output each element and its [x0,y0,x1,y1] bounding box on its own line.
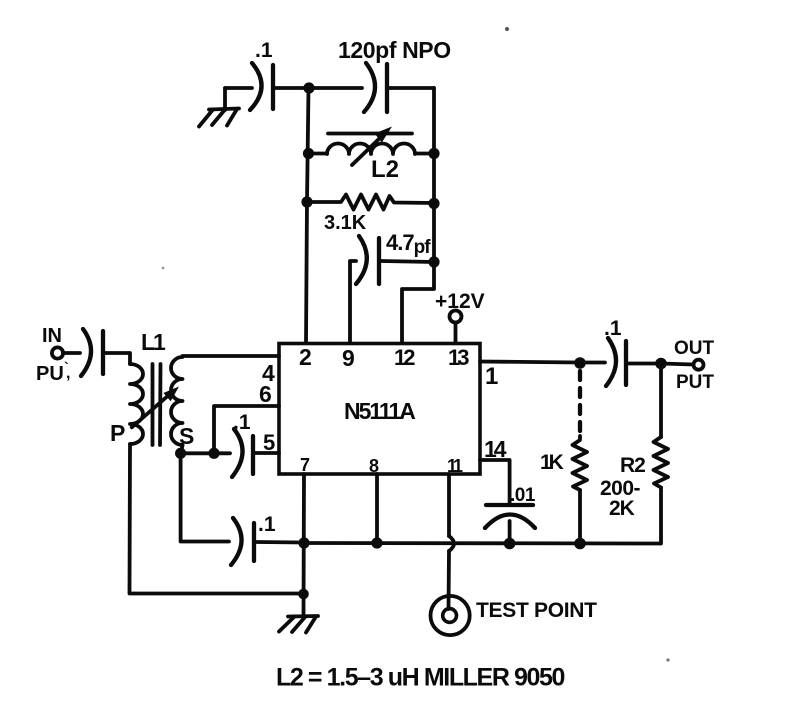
ground GND2 [279,616,318,633]
svg-text:7: 7 [300,455,310,475]
wire L2 right lead [415,152,434,156]
node O [504,538,516,550]
wire right tank rail [432,88,436,262]
wire pin14 [480,460,510,503]
wire C6 to pin7 rail [256,540,304,544]
svg-text:2: 2 [299,344,312,370]
svg-text:.01: .01 [510,485,536,506]
wire pin7 down to ground [302,474,306,616]
node N [574,538,586,550]
svg-text:2K: 2K [609,497,635,520]
svg-text:OUT: OUT [674,338,715,359]
IC U1 N5111A [259,344,507,477]
node C [428,148,439,159]
wire C8 to bus [508,521,512,544]
wire C5 to pin5 [255,451,279,455]
wire secondary bottom [181,445,183,453]
svg-text:.1: .1 [233,411,251,434]
wire pin1 [480,362,580,363]
svg-text:TEST POINT: TEST POINT [476,599,597,622]
svg-text:L1: L1 [141,329,166,355]
wire node G to C5 [181,451,230,455]
capacitor C2 120pf NPO [338,37,451,112]
ground GND1 [199,109,239,127]
wire ground lead top-left [223,88,227,110]
node J [371,537,382,548]
svg-text:L2: L2 [371,156,399,183]
svg-text:6: 6 [259,381,272,407]
svg-text:12: 12 [394,345,415,370]
svg-text:IN: IN [42,325,62,347]
svg-text:120pf NPO: 120pf NPO [338,37,451,63]
svg-text:,: , [66,365,70,382]
test point TP [431,596,598,635]
wire R2 to bus corner [660,488,661,544]
wire pin9 lead [350,261,356,343]
terminal OUT [674,338,715,393]
svg-text:.1: .1 [604,317,622,340]
wire primary bottom long link [130,444,304,594]
capacitor C7 .1 out [604,317,626,386]
node M [655,358,667,370]
wire node M down to R2 [659,364,663,438]
wire pin8 [375,474,379,543]
node B [303,148,314,159]
capacitor C1 .1 [250,39,273,110]
node E [428,198,439,209]
wire pin4 [183,354,280,358]
terminal IN [36,325,70,385]
node G [175,448,186,459]
wire pin11 lower [447,551,451,609]
svg-text:1K: 1K [540,451,564,474]
wire C4 to L1 primary [104,353,130,364]
inductor L2 [327,127,415,184]
wire node A to C2 [309,86,362,90]
capacitor C6 .1 bottom [231,513,276,565]
wire node M to OUT [661,364,693,365]
node I [298,537,309,548]
wire node L to C7 [580,361,605,365]
svg-text:3.1K: 3.1K [324,212,367,234]
wire L2 left lead [309,152,328,156]
node L [574,357,586,369]
node A [303,82,314,93]
wire pin11 upper [447,474,451,536]
svg-text:1: 1 [485,363,498,390]
capacitor C8 .01 [485,485,536,528]
wire pin11 hop over bus [449,536,454,551]
wire dashed link to 1K [578,371,582,436]
transformer L1 [110,329,194,449]
capacitor C3 4.7pf [356,230,431,284]
resistor R2 [600,437,668,520]
wire bottom bus [304,541,660,545]
capacitor C5 .1 pin5 [232,411,253,477]
node F [428,256,439,267]
capacitor C4 input .1 [81,329,103,376]
wire node G down to bus [181,453,229,541]
svg-text:PU: PU [36,363,64,385]
svg-text:PUT: PUT [676,372,714,393]
svg-text:.1: .1 [258,513,276,536]
wire left tank rail [306,88,309,343]
wire C3 to node F [381,261,434,262]
speck bottom right [666,658,669,661]
svg-text:9: 9 [342,345,355,371]
svg-text:13: 13 [448,345,469,370]
speck top right [505,27,509,31]
svg-text:R2: R2 [620,454,645,477]
svg-text:L2 = 1.5–3 uH MILLER 9050: L2 = 1.5–3 uH MILLER 9050 [276,664,565,692]
wire pin6 [214,406,279,453]
wire to C1 [225,86,252,90]
resistor 3.1K [307,195,434,235]
svg-text:N5111A: N5111A [344,398,415,424]
svg-text:.1: .1 [255,39,273,62]
wire 1K to bus [578,490,582,544]
svg-text:P: P [110,420,125,446]
node H [208,448,219,459]
wire pin12 jog [402,262,434,343]
wire C7 to node M [628,362,661,366]
+12V supply [435,290,485,343]
svg-text:+12V: +12V [435,290,485,313]
resistor 1K [540,436,587,490]
speck left-mid [162,267,165,270]
wire IN to C4 [63,351,80,355]
node K [298,589,309,600]
wire C1 to node A [274,86,309,90]
node D [301,196,312,207]
wire C2 to right rail [389,86,434,90]
